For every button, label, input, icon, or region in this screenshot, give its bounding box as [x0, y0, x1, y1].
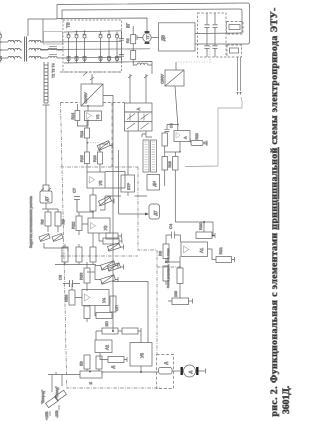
capacitor C1 upper	[119, 31, 124, 49]
potentiometer R18 arrow	[98, 142, 110, 151]
op-amp U3 box	[87, 172, 105, 188]
junction dot R42	[89, 371, 91, 373]
transformer T1 secondary winding phase C	[29, 56, 43, 59]
svg-text:+15В: +15В	[45, 411, 49, 420]
dash-dot border left upper	[61, 103, 65, 257]
box DT1 speed sensor	[40, 191, 52, 203]
wire U5 bottom junction	[140, 366, 142, 372]
svg-text:А: А	[136, 108, 141, 111]
trim pot R12b	[108, 263, 121, 271]
slash mark second	[83, 73, 87, 76]
svg-text:КЗ: КЗ	[79, 361, 84, 366]
thyristor VS4	[99, 32, 103, 64]
resistor R2 lower	[131, 51, 136, 60]
resistor R30 horizontal	[196, 232, 212, 239]
wire bridge top bus	[64, 31, 122, 32]
wire lower row bus	[55, 264, 96, 266]
resistor RS	[229, 25, 240, 30]
box A thyristor grid	[125, 112, 153, 131]
resistor R31 horizontal	[216, 257, 232, 263]
junction dots y262	[165, 261, 167, 263]
resistor R11 horizontal	[106, 233, 118, 239]
wire feedback long run	[185, 97, 242, 167]
resistor R28	[163, 244, 169, 259]
capacitor C3	[205, 25, 210, 31]
svg-text:R16: R16	[93, 155, 97, 162]
wire R14 bottom link	[77, 121, 88, 127]
wire y222 run	[175, 222, 213, 232]
transformer T1 secondary winding phase A	[29, 40, 43, 43]
resistor R14	[75, 111, 80, 121]
wire R17 bottom junction	[77, 211, 93, 218]
wire secondary C to bridge	[40, 57, 48, 59]
junction dot y222	[203, 221, 205, 223]
R46 leads	[168, 299, 193, 304]
trim pot P2 arrow	[53, 234, 63, 241]
dashed box RS resistor cell	[227, 22, 244, 35]
R11 lead tick	[118, 234, 122, 239]
wire cable down to tachometer block DT	[43, 105, 49, 191]
svg-text:ДТ: ДТ	[154, 210, 158, 216]
svg-text:Закон регулиров. тока якоря: Закон регулиров. тока якоря	[166, 248, 170, 288]
wire U3 output down	[92, 188, 94, 195]
IP diagonal	[165, 70, 184, 86]
wire A bottom left to BTR	[127, 131, 129, 175]
box BTR	[121, 175, 135, 192]
resistor R40 horizontal	[122, 328, 138, 334]
svg-text:СП: СП	[114, 305, 119, 311]
component in U-cell	[230, 48, 239, 53]
resistor R20 horizontal	[191, 141, 203, 146]
wire phase C across bridge	[57, 56, 122, 59]
wire R13 bottom junction	[86, 138, 88, 143]
wire IP input	[175, 62, 177, 70]
op-amp U2 box	[85, 111, 102, 121]
junction dot C4a	[177, 124, 179, 126]
opamp symbol in A1	[184, 246, 190, 253]
svg-text:С4: С4	[170, 123, 174, 128]
dashed box snubber group	[198, 13, 227, 57]
wire R22 link	[79, 212, 88, 235]
signal strip 1	[143, 140, 149, 172]
wire R33 top	[86, 262, 88, 291]
svg-text:ДН: ДН	[153, 181, 157, 187]
resistor R17	[90, 195, 96, 211]
wire bridge bottom bus	[64, 62, 152, 75]
wire bridge middle bus	[40, 48, 150, 51]
arrowhead left	[236, 92, 238, 95]
resistor R15	[85, 152, 90, 164]
SIFU diagonal	[81, 84, 103, 106]
wires into reversing block A	[130, 74, 146, 103]
wire ref vertical x113	[103, 96, 113, 332]
transformer T1 core	[25, 37, 27, 62]
wire secondary A up to bus	[43, 40, 122, 43]
trim pot P1 arrow	[40, 234, 50, 241]
opamp symbol in U2b	[91, 223, 96, 230]
box DT2 current sensor	[149, 204, 160, 219]
trim pot R12a arrow	[108, 243, 124, 251]
wire R24 R25 bottoms	[48, 226, 58, 232]
svg-text:R8: R8	[40, 219, 45, 225]
current transformer T3 on phase B	[48, 48, 62, 50]
svg-text:Д: Д	[110, 366, 115, 369]
capacitor C4b	[166, 232, 181, 239]
motor M brush right	[145, 42, 150, 44]
resistor R25	[55, 212, 61, 226]
svg-text:R30: R30	[198, 222, 203, 230]
arrowhead right	[239, 92, 241, 95]
wire U2 to R13	[86, 121, 88, 128]
dashed inner line under bridge	[60, 71, 121, 73]
slash marks on A feeders	[128, 75, 148, 78]
twin field wires down	[238, 57, 241, 91]
svg-text:C8: C8	[58, 274, 63, 280]
transformer T1 primary winding phase C	[8, 56, 22, 59]
capacitor C5	[205, 46, 210, 52]
wire DT1 bottom	[42, 203, 58, 212]
dashed box PV thyristor converter	[63, 20, 122, 72]
svg-text:R14: R14	[71, 113, 75, 120]
svg-text:R9: R9	[61, 219, 66, 225]
dashed box BR tacho	[157, 355, 174, 389]
diode pair node on feedback wire	[205, 142, 208, 145]
resistor R39 horizontal	[102, 328, 118, 334]
R47 stubs	[86, 306, 88, 323]
junction dot y147	[86, 142, 88, 144]
R18 lead tick	[110, 143, 119, 214]
trim pot R35	[101, 275, 116, 284]
wire tacho link	[172, 370, 180, 372]
svg-text:У5: У5	[140, 352, 145, 358]
transformer T1 primary winding phase A	[8, 40, 22, 43]
capacitor C2 lower	[119, 49, 124, 62]
resistor R13	[85, 128, 90, 138]
box DN	[147, 175, 160, 191]
resistor R27b	[76, 247, 82, 262]
wire R chain	[133, 26, 137, 65]
svg-text:R36: R36	[64, 294, 69, 302]
wire U6 right to R20	[190, 139, 191, 144]
wire y196	[105, 195, 147, 197]
resistor R29	[163, 266, 169, 281]
svg-text:R19: R19	[168, 161, 172, 167]
wire R28 bottom junction	[166, 257, 180, 269]
svg-text:Д: Д	[164, 362, 168, 365]
wire secondary B to bridge	[40, 49, 48, 51]
svg-text:C7: C7	[72, 187, 77, 193]
svg-text:Б: Б	[88, 382, 93, 385]
slash mark on SIFU input	[90, 77, 94, 80]
wire y331 row	[96, 328, 141, 340]
thyristor VS2	[75, 32, 79, 64]
wire A bottom right jog	[142, 131, 152, 137]
resistor R41 horizontal	[108, 357, 124, 363]
wire R32 down	[166, 281, 180, 298]
wire R14 top	[76, 104, 78, 111]
wire phase C input	[0, 57, 8, 59]
resistor R16	[98, 152, 103, 164]
svg-text:100: 100	[174, 291, 178, 297]
choke L1	[137, 63, 152, 65]
resistor R44 vertical	[96, 356, 102, 369]
wire motor right lead to DV box	[151, 37, 158, 39]
resistor R1	[131, 35, 136, 44]
svg-text:R31: R31	[218, 246, 223, 254]
junction dot SIFU out	[87, 105, 89, 107]
wire R16 bottom	[100, 144, 108, 172]
resistor R33	[84, 268, 90, 283]
wire motor left lead	[137, 35, 143, 40]
resistor R47 below U4	[84, 306, 90, 319]
snubber column wires	[207, 13, 215, 57]
svg-text:ТГ: ТГ	[145, 34, 150, 39]
dashed regulator border top	[61, 102, 125, 104]
wire pots to R33	[87, 266, 101, 280]
svg-text:"Вперед": "Вперед"	[41, 389, 45, 404]
resistor R38 on x113	[110, 296, 116, 312]
junction dot x113	[112, 330, 114, 332]
wire BTR bottom	[127, 192, 129, 196]
svg-text:"Назад": "Назад"	[55, 386, 59, 399]
junction dot U5 out	[140, 371, 142, 373]
wire R36 link	[72, 284, 82, 298]
wire phase A input	[0, 41, 8, 43]
svg-text:R15: R15	[80, 155, 84, 162]
trim pot R35 arrow and tick	[101, 275, 118, 284]
resistor R21	[162, 157, 168, 171]
resistor R45 in tacho box	[159, 368, 173, 375]
motor M brush left	[145, 31, 150, 33]
resistor R43 vertical	[84, 355, 90, 369]
resistor R37 horizontal	[96, 313, 112, 319]
tacho brush left	[180, 367, 182, 375]
op-amp U4 box	[82, 290, 109, 306]
grid divider	[125, 112, 153, 131]
resistor R23h horizontal	[103, 238, 119, 244]
svg-text:рис. 2. Функциональная с элеме: рис. 2. Функциональная с элементами прин…	[269, 7, 280, 416]
wire third bus from transformer shield	[28, 19, 57, 36]
U3 feedback loop wire	[105, 172, 125, 189]
DT1 corner slashes	[41, 188, 51, 191]
arrowhead into DT2	[145, 213, 149, 216]
resistor R22b	[173, 157, 179, 171]
wire bus y18 to motor	[57, 18, 147, 33]
trim pot R34	[101, 261, 116, 270]
svg-text:С4: С4	[168, 223, 173, 229]
resistor R27a	[62, 247, 68, 262]
R30 right junction	[212, 222, 215, 238]
svg-text:У2: У2	[96, 114, 100, 119]
wire setter bottom	[44, 243, 68, 252]
box A header	[125, 103, 153, 112]
op-amp U2b box	[88, 218, 110, 233]
R23h lead tick	[99, 233, 122, 244]
tacho brush right	[196, 367, 198, 375]
junction dot reg out	[179, 151, 181, 153]
thyristor VS5	[107, 32, 111, 64]
svg-text:СИФУ: СИФУ	[161, 73, 165, 84]
svg-text:А1: А1	[199, 247, 204, 253]
svg-text:У2: У2	[103, 225, 108, 231]
svg-text:R20: R20	[195, 133, 199, 139]
svg-text:Д: Д	[188, 371, 193, 374]
trim pot R12a	[108, 243, 121, 251]
trim pot P2	[52, 234, 63, 242]
svg-text:КО: КО	[104, 321, 109, 326]
svg-text:TB: TB	[66, 22, 71, 28]
motor M armature circle	[143, 33, 151, 41]
opamp symbol in U4	[85, 294, 91, 301]
capacitor C6	[213, 46, 218, 52]
wire U4 out	[95, 306, 96, 316]
junction dots top bus	[76, 31, 78, 33]
potentiometer R19 arrow	[99, 197, 114, 207]
svg-text:3601Д.: 3601Д.	[281, 386, 292, 414]
dash-dot border y267 stub	[157, 266, 181, 268]
switch SB2 backward	[55, 390, 67, 400]
resistor R42 wide	[80, 371, 102, 378]
thyristor VS1	[0, 32, 2, 64]
opamp symbol in U3	[90, 177, 95, 184]
switch SB1 forward	[46, 396, 59, 407]
svg-text:R6: R6	[158, 250, 163, 256]
wire A2 to R41	[100, 353, 127, 363]
potentiometer R18 slanted body	[97, 141, 110, 150]
strip 1 text	[145, 142, 148, 170]
wire row stubs	[65, 233, 93, 265]
thyristor VS3	[83, 32, 87, 64]
trim pot P1	[39, 234, 50, 242]
svg-text:Т2 Т3 Т4: Т2 Т3 Т4	[52, 63, 56, 78]
resistor R27c	[90, 247, 96, 262]
resistor R46 horizontal	[172, 298, 189, 305]
box U5 main amp	[130, 343, 152, 367]
dash-dot border x112	[61, 103, 158, 355]
capacitor C7	[74, 197, 80, 213]
potentiometer R18 dotted link	[88, 142, 99, 144]
wire SIFU input	[91, 74, 93, 84]
wire main bottom bus	[48, 372, 158, 375]
dashed box U-cell	[227, 45, 242, 57]
opamp symbol in U2	[87, 113, 92, 120]
svg-text:Задатчик интенсивности разгона: Задатчик интенсивности разгона	[29, 196, 33, 248]
capacitor C8	[63, 280, 80, 287]
svg-text:R13: R13	[80, 131, 84, 138]
trim pot R34 arrow and tick	[101, 261, 118, 270]
svg-text:R2: R2	[126, 38, 130, 43]
svg-text:А2: А2	[105, 344, 110, 350]
switch SB1 lever	[50, 372, 56, 416]
grid cell slashes	[127, 114, 149, 130]
signal strip 2	[151, 140, 157, 172]
shielded cable to DT ladder	[43, 62, 50, 105]
strip 2 text	[152, 142, 155, 170]
switch SB2 lever	[59, 375, 62, 411]
thyristor VS6	[115, 32, 119, 64]
resistor R36	[69, 290, 75, 305]
box SIFU phase control	[81, 84, 103, 106]
junction dot C7 bus	[92, 211, 94, 213]
current transformer T4 on phase C	[48, 56, 57, 58]
svg-text:R33: R33	[79, 272, 84, 280]
trim pot R12b arrow	[108, 263, 124, 271]
transformer T1 secondary winding phase B	[29, 48, 43, 51]
svg-text:У3: У3	[98, 180, 103, 186]
wire top outer bus	[57, 3, 250, 44]
svg-text:ДТ: ДТ	[44, 196, 49, 202]
wire tacho right stub	[199, 369, 206, 374]
svg-text:А: А	[184, 136, 188, 139]
op-amp U6 box	[174, 131, 190, 142]
wire grid to C4a	[152, 124, 158, 126]
dotted feed to IP box	[176, 46, 210, 62]
box TT terminal block	[44, 32, 63, 45]
current transformer T3 pickup bar	[49, 46, 57, 48]
tachogenerator BR circle	[184, 365, 196, 377]
dash-dot border left lower	[64, 256, 161, 388]
wire IP output down to regulator A	[175, 86, 178, 131]
current transformer T4 pickup bar	[49, 54, 57, 56]
wire R43 R44 tops	[87, 369, 99, 371]
box A2	[95, 340, 112, 353]
box DV motor unit	[159, 23, 196, 51]
svg-text:R22: R22	[71, 221, 76, 229]
capacitor C4	[213, 25, 218, 31]
wire y196 left drop	[100, 196, 105, 210]
wire phase B input	[0, 49, 8, 51]
svg-text:БТР: БТР	[127, 182, 131, 190]
transformer T1 primary winding phase B	[8, 48, 22, 51]
resistor R24	[45, 212, 51, 226]
wire bus mid	[101, 372, 103, 374]
wire SIFU to U2	[87, 106, 89, 111]
wire verticals below	[165, 142, 180, 223]
wire y214 into DT2 with arrow	[119, 213, 147, 215]
wire loop x148	[112, 282, 148, 343]
svg-text:СИФУ: СИФУ	[83, 92, 88, 104]
wire second top bus	[62, 9, 242, 34]
upper current regulator: input resistor R6	[162, 133, 168, 146]
op-amp A1 box	[181, 242, 208, 257]
wire C4b drops	[166, 235, 181, 244]
wire A1 out to R31	[208, 249, 217, 260]
opamp symbol in U6	[176, 133, 180, 139]
box IP power supply	[165, 70, 184, 86]
R31 right tick	[232, 257, 235, 262]
junction dot U2 in	[87, 120, 89, 122]
wire R15 stubs	[86, 164, 88, 173]
dash-dot border mid horizontal	[61, 255, 139, 257]
junction dot R30	[212, 235, 214, 237]
capacitor C4a feedback	[165, 125, 179, 134]
svg-text:-15В: -15В	[55, 410, 59, 418]
R20 right lead and loop	[203, 141, 207, 147]
wire y147 link	[86, 143, 88, 152]
resistor R22	[76, 216, 82, 231]
svg-text:ДВ: ДВ	[161, 35, 166, 41]
resistor R32	[177, 268, 183, 284]
potentiometer R19 slanted	[99, 196, 112, 205]
thyristor VS7 lower row	[0, 0, 1, 1]
svg-text:ВГ: ВГ	[126, 22, 131, 28]
wire U5 top	[140, 334, 142, 343]
svg-text:У4: У4	[102, 297, 107, 303]
